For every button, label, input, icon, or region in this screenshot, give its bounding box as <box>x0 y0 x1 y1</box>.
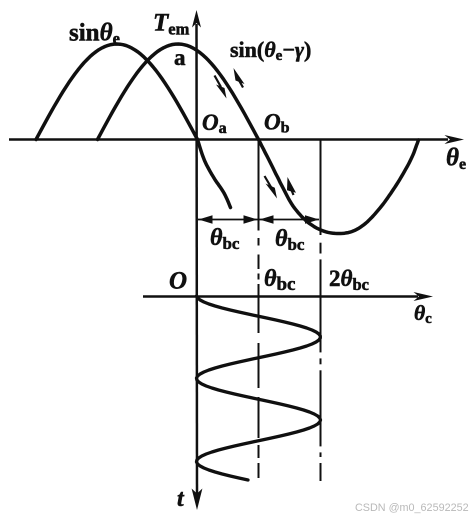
wire: lower horizontal axis line <box>143 295 418 298</box>
svg-text:θe: θe <box>446 145 466 174</box>
wire: theta_bc dimension line <box>198 219 319 221</box>
wire: vertical line at 2theta_bc (x=320.5), solid then chain segments <box>320 140 322 236</box>
curve sin(theta_e - gamma) <box>98 44 419 234</box>
wire: upper horizontal axis line <box>9 138 448 141</box>
node: oscillation arrow lower-left (down) <box>265 176 278 199</box>
node: oscillation arrow upper-left (down) <box>215 76 227 99</box>
node: dimension arrowhead pointing left at middle line <box>260 215 274 224</box>
svg-text:θbc: θbc <box>264 266 295 295</box>
node: oscillation arrow upper-right (up) <box>234 68 245 88</box>
svg-text:t: t <box>177 486 185 512</box>
curve: lower oscillation wave <box>197 296 321 480</box>
wire: vertical Tem/t axis <box>195 24 198 494</box>
svg-text:sinθe: sinθe <box>69 20 120 49</box>
svg-text:θc: θc <box>414 301 432 327</box>
svg-text:sin(θe−γ): sin(θe−γ) <box>230 37 311 64</box>
wire: vertical line at theta_bc (x=258.5), solid then chain segments <box>258 140 260 231</box>
svg-text:2θbc: 2θbc <box>329 266 369 294</box>
svg-text:CSDN @m0_62592252: CSDN @m0_62592252 <box>355 502 469 514</box>
node: lower axis right arrowhead <box>414 292 434 301</box>
svg-text:O: O <box>169 268 187 295</box>
svg-text:Ob: Ob <box>264 110 290 137</box>
svg-text:a: a <box>174 45 186 70</box>
svg-text:Tem: Tem <box>153 10 190 39</box>
svg-text:θbc: θbc <box>210 225 240 253</box>
svg-text:θbc: θbc <box>275 226 305 254</box>
node: oscillation arrow lower-right (up) <box>287 177 296 195</box>
node: dimension arrowhead pointing right at 2theta_bc line <box>305 215 319 224</box>
svg-text:Oa: Oa <box>202 110 227 137</box>
node: Tem axis top arrowhead <box>192 10 201 28</box>
node: dimension arrowhead pointing left at Tem axis <box>199 215 213 224</box>
curve sin(theta_e) <box>36 44 231 208</box>
node: t axis bottom arrowhead <box>192 489 203 511</box>
node: dimension arrowhead pointing right at middle line <box>244 215 258 224</box>
node: upper axis right arrowhead <box>445 135 465 144</box>
